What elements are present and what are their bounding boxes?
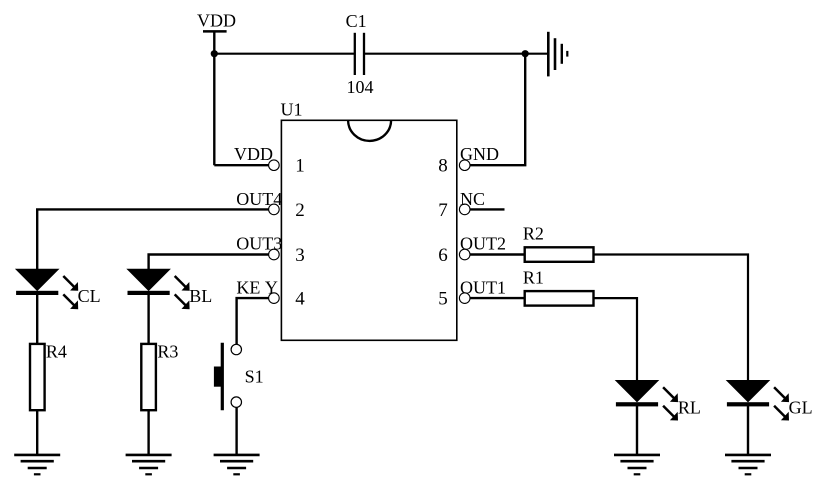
- svg-text:OUT3: OUT3: [236, 234, 282, 254]
- wire BL to R3: [147, 294, 149, 345]
- wire S1 to ground: [235, 407, 237, 454]
- svg-text:2: 2: [295, 200, 305, 221]
- pin 1 circle: [269, 160, 280, 171]
- LED BL: [128, 269, 190, 309]
- wire pin 5 to R1: [470, 297, 525, 299]
- pin 4 circle: [269, 293, 280, 304]
- svg-text:R4: R4: [46, 342, 67, 362]
- wire C1 to ground rail: [364, 53, 547, 55]
- svg-text:3: 3: [295, 245, 305, 266]
- svg-text:GND: GND: [460, 144, 499, 164]
- LED GL: [727, 381, 789, 421]
- wire CL to R4: [36, 294, 38, 345]
- wire junction down to pin 8: [470, 54, 525, 166]
- svg-text:VDD: VDD: [234, 144, 273, 164]
- power flag VDD: [203, 31, 227, 53]
- pin 2 circle: [269, 204, 280, 215]
- junction at GND rail: [522, 50, 529, 57]
- resistor R2: [525, 247, 594, 261]
- svg-text:NC: NC: [460, 189, 485, 209]
- svg-text:S1: S1: [245, 367, 264, 387]
- svg-text:KEY: KEY: [236, 278, 278, 298]
- ground (below RL): [614, 455, 660, 474]
- wire pin 6 to R2: [470, 253, 525, 255]
- ground (top right, sideways): [548, 32, 567, 77]
- wire R3 to ground: [147, 410, 149, 455]
- switch S1: [214, 343, 242, 410]
- resistor R3: [141, 344, 156, 410]
- svg-text:R2: R2: [523, 224, 544, 244]
- pin 8 circle: [459, 160, 470, 171]
- svg-text:OUT1: OUT1: [460, 278, 506, 298]
- wire pin 4 to S1: [237, 298, 269, 344]
- wire R1 to RL: [594, 298, 638, 381]
- svg-text:4: 4: [295, 289, 305, 310]
- wire VDD vertical to pin 1: [213, 54, 215, 166]
- resistor R4: [30, 344, 45, 410]
- svg-text:CL: CL: [78, 286, 101, 306]
- svg-text:OUT4: OUT4: [236, 189, 282, 209]
- pin 6 circle: [459, 249, 470, 260]
- capacitor C1: [355, 33, 364, 75]
- pin 5 circle: [459, 293, 470, 304]
- wire R2 to GL: [594, 255, 749, 381]
- pin 7 circle: [459, 204, 470, 215]
- ground (below S1): [214, 455, 260, 474]
- svg-text:5: 5: [438, 289, 448, 310]
- wire R4 to ground: [36, 410, 38, 455]
- svg-text:VDD: VDD: [197, 11, 236, 31]
- svg-text:104: 104: [347, 77, 374, 97]
- svg-text:R3: R3: [157, 342, 178, 362]
- svg-text:RL: RL: [678, 398, 701, 418]
- IC U1 body: [281, 120, 456, 340]
- svg-text:1: 1: [295, 156, 305, 177]
- wire pin 1: [214, 164, 268, 166]
- LED CL: [16, 269, 78, 309]
- junction at VDD: [211, 50, 218, 57]
- ground (below GL): [725, 455, 771, 474]
- svg-text:BL: BL: [189, 286, 212, 306]
- svg-text:OUT2: OUT2: [460, 234, 506, 254]
- svg-text:8: 8: [438, 156, 448, 177]
- wire pin 3 to BL: [149, 255, 269, 270]
- svg-text:R1: R1: [523, 268, 544, 288]
- pin 3 circle: [269, 249, 280, 260]
- ground (below R4): [14, 455, 60, 474]
- wire VDD rail to C1: [214, 53, 354, 55]
- wire GL to ground: [747, 405, 749, 454]
- svg-text:GL: GL: [789, 398, 813, 418]
- svg-text:U1: U1: [281, 100, 303, 120]
- svg-text:7: 7: [438, 200, 448, 221]
- wire RL to ground: [636, 405, 638, 454]
- svg-text:6: 6: [438, 245, 448, 266]
- wire pin 2 to CL: [37, 209, 268, 269]
- LED RL: [616, 381, 678, 421]
- svg-text:C1: C1: [346, 11, 367, 31]
- resistor R1: [525, 291, 594, 306]
- ground (below R3): [126, 455, 172, 474]
- wire pin 7 NC stub: [470, 208, 504, 210]
